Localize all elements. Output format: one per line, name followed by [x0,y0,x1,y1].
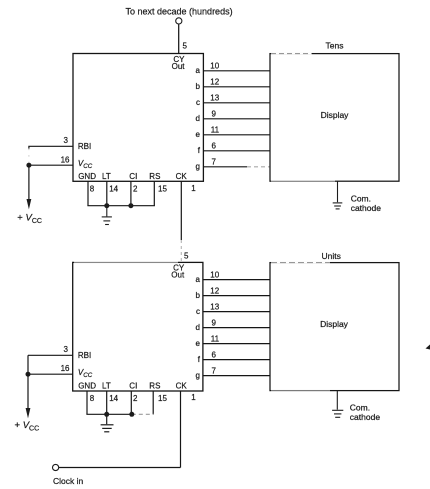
ground: units display common cathode [332,391,343,418]
wire: clock line [59,467,181,469]
svg-text:14: 14 [109,394,118,403]
wire: ground bus units [86,413,131,415]
svg-text:GND: GND [78,172,96,181]
svg-text:3: 3 [63,345,68,354]
wire: segment f tens (pin 6) [203,150,270,152]
IC U1 (tens BCD counter/decoder) [73,54,203,182]
svg-text:To next decade (hundreds): To next decade (hundreds) [126,6,233,16]
svg-text:12: 12 [210,78,219,87]
wire: faded connector pin3 to VCC node (tens) [28,149,30,163]
svg-text:CI: CI [129,172,137,181]
svg-text:11: 11 [211,334,220,343]
IC U2 (units BCD counter/decoder) [73,262,203,391]
wire: CK stub units (pin 1) down to clock line [180,391,182,468]
svg-text:Com.: Com. [351,194,371,204]
ground: units logic ground [101,414,114,432]
svg-text:Out: Out [172,62,186,71]
wire: VCC arrow stem (tens) [28,165,30,200]
wire: CK stub tens (pin 1) down to units CY [180,181,182,240]
wire: VCC input tens [29,164,73,166]
svg-text:14: 14 [109,185,118,194]
wire: segment g tens (pin 7) [203,166,247,168]
svg-text:2: 2 [133,185,138,194]
svg-text:15: 15 [158,185,167,194]
artifact: small mark at right edge [426,345,430,350]
wire: connector pin3 to VCC node (units) [27,355,29,374]
svg-text:12: 12 [210,286,219,295]
svg-text:b: b [196,291,201,300]
wire: segment d units (pin 9) [203,327,270,329]
wire: segment d tens (pin 9) [203,118,270,120]
wire: segment c tens (pin 13) [203,102,270,104]
svg-text:11: 11 [211,126,220,135]
svg-text:g: g [196,371,200,380]
svg-text:16: 16 [61,155,70,164]
display: tens 7-segment display box [270,54,399,182]
svg-text:Display: Display [320,319,349,329]
wire: tens CY Out (pin 5) up to terminal [178,24,180,53]
ground: tens logic ground [102,206,112,225]
svg-text:1: 1 [191,393,196,402]
svg-text:3: 3 [64,136,69,145]
svg-text:e: e [196,339,201,348]
svg-text:Tens: Tens [326,41,344,51]
arrowhead: +VCC (tens) [27,199,32,209]
svg-text:RBI: RBI [78,142,91,151]
node: units LT junction dot [104,412,109,417]
svg-text:a: a [196,66,201,75]
svg-text:RS: RS [149,172,160,181]
wire: RS stub tens (pin 15) [153,181,155,205]
node: units CI junction dot [129,412,134,417]
wire: segment b tens (pin 12) [203,86,270,88]
node: tens VCC junction dot [26,163,31,168]
wire: RBI input tens [29,146,73,148]
wire: segment b units (pin 12) [203,295,270,297]
terminal: carry out to hundreds [176,18,182,24]
wire: ground bus tens [87,205,154,207]
wire: VCC arrow stem (units) [27,374,29,409]
wire: CI stub units (pin 2) [130,391,132,414]
svg-text:e: e [196,130,201,139]
wire: GND stub units (pin 8) [86,391,88,414]
svg-text:Out: Out [171,271,185,280]
svg-text:6: 6 [212,142,217,151]
svg-text:d: d [196,323,200,332]
wire: LT stub tens (pin 14) [106,181,108,205]
svg-text:13: 13 [210,94,219,103]
wire: segment f units (pin 6) [203,359,270,361]
svg-text:CK: CK [176,172,188,181]
svg-text:13: 13 [210,302,219,311]
svg-text:10: 10 [210,270,219,279]
svg-text:5: 5 [183,42,188,51]
svg-text:d: d [196,114,200,123]
svg-text:2: 2 [133,394,138,403]
svg-text:6: 6 [212,350,217,359]
svg-text:16: 16 [61,364,70,373]
wire: segment a units (pin 10) [203,279,270,281]
wire: CI stub tens (pin 2) [130,181,132,205]
arrowhead: +VCC (units) [26,408,31,418]
node: tens LT junction dot [104,203,109,208]
svg-text:Display: Display [321,110,350,120]
svg-text:7: 7 [212,158,217,167]
wire: RS stub units (pin 15) [152,391,154,414]
svg-text:GND: GND [78,382,96,391]
wire: RBI input units [28,354,73,356]
svg-text:Units: Units [322,251,341,261]
ground: tens display common cathode [333,181,343,209]
node: tens CI junction dot [128,203,133,208]
svg-text:8: 8 [90,185,95,194]
display: units 7-segment display box [270,263,399,391]
wire: VCC input units [28,373,73,375]
svg-text:Clock in: Clock in [53,476,84,486]
svg-text:CK: CK [176,382,188,391]
wire: segment a tens (pin 10) [203,70,270,72]
wire: segment c units (pin 13) [203,311,270,313]
svg-text:8: 8 [90,394,95,403]
svg-text:a: a [196,275,201,284]
svg-text:7: 7 [212,366,217,375]
svg-text:c: c [196,307,200,316]
svg-text:5: 5 [184,252,189,261]
wire: segment g units (pin 7) [203,375,270,377]
svg-text:LT: LT [102,382,111,391]
wire: segment e units (pin 11) [203,343,270,345]
wire: segment e tens (pin 11) [203,134,270,136]
node: units VCC junction dot [26,372,31,377]
svg-text:cathode: cathode [350,412,381,422]
svg-text:b: b [196,82,201,91]
svg-text:c: c [196,98,200,107]
svg-text:RS: RS [149,382,160,391]
svg-text:CI: CI [129,382,137,391]
svg-text:Com.: Com. [350,403,370,413]
svg-text:cathode: cathode [351,203,382,213]
svg-text:9: 9 [212,110,217,119]
terminal: clock input [53,464,59,470]
svg-text:9: 9 [212,318,217,327]
wire: GND stub tens (pin 8) [87,181,89,205]
svg-text:10: 10 [210,62,219,71]
svg-text:15: 15 [158,394,167,403]
svg-text:LT: LT [102,172,111,181]
svg-text:1: 1 [191,184,196,193]
svg-text:RBI: RBI [78,351,91,360]
wire: LT stub units (pin 14) [106,391,108,414]
svg-text:g: g [196,162,200,171]
